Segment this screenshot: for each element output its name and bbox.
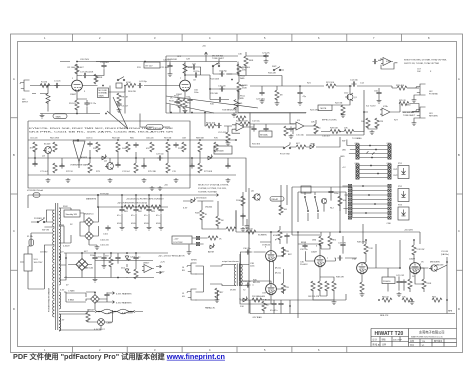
- wire into send jack: [407, 87, 419, 89]
- diode OD D3: [101, 154, 107, 159]
- capacitor C57: [216, 123, 221, 128]
- resistor R2 plate: [75, 64, 79, 74]
- capacitor C1: [54, 83, 59, 88]
- ground mid3: [298, 101, 303, 106]
- svg-text:FOOT SW: FOOT SW: [280, 154, 290, 156]
- wire standby out: [71, 208, 84, 243]
- svg-text:C15 47p: C15 47p: [296, 135, 305, 137]
- ground left io: [241, 227, 246, 232]
- svg-text:Q1: Q1: [354, 97, 358, 99]
- resistor R72 mid drop: [275, 90, 279, 100]
- svg-text:C16 4u7: C16 4u7: [322, 136, 331, 138]
- svg-text:6: 6: [318, 36, 320, 40]
- wire PI riser: [298, 157, 340, 318]
- svg-text:F1 2A: F1 2A: [27, 235, 33, 238]
- resistor R33 180K: [244, 56, 248, 66]
- svg-text:100n: 100n: [250, 266, 255, 268]
- resistor R67: [338, 196, 342, 206]
- resistor OD R46: [116, 142, 120, 152]
- svg-text:115/230: 115/230: [40, 252, 48, 254]
- svg-text:1K: 1K: [205, 214, 208, 216]
- zone numbers top: [44, 36, 430, 40]
- bridge rectifier BR1b: [85, 232, 94, 241]
- svg-text:C34 63V: C34 63V: [338, 243, 347, 245]
- svg-text:47u: 47u: [144, 215, 147, 217]
- svg-text:J5: J5: [182, 293, 185, 295]
- svg-text:R27: R27: [394, 120, 399, 122]
- svg-text:LM317: LM317: [143, 263, 150, 265]
- ground OD g4: [174, 178, 179, 183]
- junction dots psu: [81, 194, 162, 278]
- svg-text:FOOTSW: FOOTSW: [174, 242, 183, 244]
- resistor R70: [94, 74, 98, 84]
- svg-text:R62 470K: R62 470K: [50, 138, 60, 140]
- resistor R90 aux: [208, 236, 218, 240]
- input jack JK1: [20, 80, 30, 91]
- pentode V5 EL84: [266, 284, 277, 296]
- transformer T1 primary winding extra: [53, 264, 55, 317]
- svg-text:1K: 1K: [170, 98, 173, 100]
- svg-text:Standby SW: Standby SW: [66, 213, 77, 216]
- svg-text:Q4: Q4: [104, 161, 108, 163]
- capacitor OD C49: [189, 163, 194, 168]
- capacitor C301: [104, 292, 109, 297]
- svg-text:R15 56K: R15 56K: [210, 93, 219, 95]
- pill box POWER AMP: [146, 125, 163, 130]
- svg-text:1: 1: [44, 348, 46, 352]
- wire CN2-CN4 rows: [359, 166, 388, 178]
- ground return jack: [412, 121, 417, 126]
- svg-text:R34 22K: R34 22K: [268, 73, 277, 75]
- wire rail drop to U2A: [290, 113, 296, 135]
- op-amp U2A mixer: [294, 122, 306, 130]
- svg-text:1K2: 1K2: [30, 148, 35, 150]
- wire cathode ground rail: [40, 107, 100, 114]
- svg-text:HIWATT T20: HIWATT T20: [375, 331, 404, 337]
- ground divider: [117, 108, 122, 113]
- wire plate to tone stack: [185, 74, 210, 76]
- resistor R201: [109, 257, 113, 267]
- wire output tube plates: [240, 232, 271, 304]
- capacitor OD C50: [225, 163, 230, 168]
- svg-text:R515: R515: [169, 101, 175, 103]
- wire OD verticals: [35, 140, 228, 175]
- capacitor C15 mix: [288, 126, 293, 131]
- wire sw run: [31, 217, 52, 222]
- resistor R512: [178, 98, 182, 108]
- svg-text:+12: +12: [342, 167, 346, 169]
- capacitor C58: [187, 97, 192, 102]
- ground mixer: [289, 134, 294, 139]
- svg-text:C66 22n: C66 22n: [146, 138, 154, 140]
- wire r720 link: [202, 211, 236, 229]
- ground preamp: [40, 114, 45, 119]
- ground OD g5: [226, 178, 231, 183]
- svg-text:S2: S2: [70, 224, 73, 226]
- svg-text:47u: 47u: [131, 215, 134, 217]
- svg-text:Q3: Q3: [42, 156, 46, 158]
- transformer T1 core: [56, 203, 58, 330]
- resistor R320: [200, 210, 204, 220]
- box OD IC SE504B: [214, 146, 232, 154]
- svg-text:C10 22n: C10 22n: [218, 86, 226, 88]
- svg-text:+B2 +12V/15V REGULATOR: +B2 +12V/15V REGULATOR: [158, 255, 185, 258]
- svg-text:IC1A: IC1A: [236, 120, 241, 123]
- resistor R60 bias: [252, 298, 262, 302]
- svg-text:TU3TMR, TU3TRK: TU3TMR, TU3TRK: [198, 191, 216, 193]
- wire bias links: [264, 300, 290, 314]
- svg-text:6.3V: 6.3V: [60, 320, 65, 322]
- transformer T1 heater secondary: [59, 292, 61, 309]
- capacitor C21b plate: [191, 64, 196, 69]
- svg-text:C24 470p: C24 470p: [256, 99, 266, 101]
- svg-text:R21 1K6: R21 1K6: [326, 82, 335, 84]
- wire filter cap drops: [122, 207, 161, 226]
- bridge rectifier BR2: [76, 259, 88, 271]
- svg-text:GND: GND: [340, 156, 345, 158]
- resistor R49d cathode: [360, 282, 364, 292]
- LT rail row2: [64, 253, 168, 278]
- jack J4 speaker: [187, 263, 197, 274]
- heater rail row3: [64, 292, 86, 302]
- ground reg row2: [102, 264, 107, 269]
- svg-text:(Hum): (Hum): [275, 268, 281, 270]
- svg-text:6.3V: 6.3V: [60, 290, 65, 292]
- wire od to output link: [236, 158, 246, 192]
- title block small cells text: [373, 337, 443, 347]
- capacitor C32 pi: [302, 243, 307, 248]
- junction dots mid rail: [76, 112, 206, 115]
- diode D10 bias: [242, 296, 248, 301]
- svg-text:2: 2: [420, 264, 422, 266]
- lamp PL1: [98, 319, 105, 326]
- resistor R20 fb: [236, 116, 246, 120]
- resistor R36 tail: [319, 236, 323, 246]
- wire V3A plate: [362, 240, 366, 282]
- svg-text:R64 10K: R64 10K: [112, 138, 121, 140]
- diagonal tone slope line: [166, 96, 258, 108]
- op-amp REG regulator: [142, 265, 154, 273]
- capacitor C21: [167, 63, 172, 68]
- resistor R11 plate V1B: [183, 64, 187, 74]
- title block frame: [371, 329, 457, 347]
- ground mid rail: [232, 113, 237, 118]
- transistor Q6 relay driver: [252, 194, 260, 201]
- svg-text:C204: C204: [130, 257, 136, 259]
- resistor R66: [279, 205, 283, 215]
- svg-text:C: C: [458, 229, 460, 233]
- transformer T1 heater secondary2: [59, 314, 61, 331]
- capacitor C24 mid drop: [259, 90, 264, 95]
- connector CN2 left pins: [356, 164, 359, 179]
- svg-text:SE504B: SE504B: [216, 151, 224, 153]
- node junction box out: [124, 85, 126, 87]
- svg-text:NORMAL: NORMAL: [99, 92, 109, 95]
- svg-text:47K: 47K: [146, 148, 150, 150]
- capacitor C8 coupling to tone: [193, 72, 198, 77]
- svg-text:+B1 320V: +B1 320V: [404, 230, 414, 232]
- svg-text:OVERDRIVE GAIN: OVERDRIVE GAIN: [70, 164, 88, 167]
- wire return path: [364, 104, 419, 130]
- svg-text:BD139: BD139: [437, 265, 444, 267]
- wire HT secondary leads: [59, 208, 71, 243]
- svg-text:C63 1n: C63 1n: [86, 138, 93, 140]
- svg-text:22K: 22K: [93, 148, 97, 150]
- wire lower stubs: [247, 219, 287, 244]
- svg-text:8Ω: 8Ω: [182, 270, 185, 272]
- svg-text:R70: R70: [214, 138, 219, 140]
- wire aux links: [192, 238, 208, 244]
- svg-text:C68: C68: [182, 138, 187, 140]
- svg-text:C HAG: C HAG: [68, 290, 75, 293]
- svg-text:LED: LED: [342, 150, 347, 152]
- resistor RF1: [124, 205, 134, 209]
- svg-text:C27 47u: C27 47u: [262, 53, 270, 55]
- box relay on rail: [144, 62, 160, 68]
- svg-text:6: 6: [318, 348, 320, 352]
- svg-text:R48 2.2K: R48 2.2K: [357, 242, 366, 244]
- pin aux2: [196, 242, 199, 245]
- diagonal tone slope line2: [166, 103, 214, 113]
- svg-text:IC2A: IC2A: [383, 105, 388, 108]
- svg-text:PULL: PULL: [240, 96, 246, 98]
- resistor R47g grid stopper2: [281, 283, 285, 293]
- capacitor C7 bypass: [174, 99, 179, 104]
- svg-text:1: 1: [44, 36, 46, 40]
- svg-text:RV1: RV1: [394, 169, 399, 171]
- svg-text:CN6: CN6: [387, 223, 392, 225]
- svg-text:SW ON: SW ON: [42, 230, 49, 232]
- svg-text:1K: 1K: [219, 239, 222, 241]
- transistor Q7 small: [321, 198, 326, 203]
- svg-text:R516 10K: R516 10K: [206, 123, 216, 125]
- vertical riser rail V1B: [169, 62, 171, 73]
- arrow +B: [213, 194, 219, 197]
- wire pill link: [140, 114, 170, 128]
- node +B supply arrow: [205, 52, 208, 62]
- svg-text:C30: C30: [238, 54, 243, 56]
- wire CN5-CN6 rows: [352, 186, 388, 218]
- resistor R3 cathode: [75, 100, 79, 110]
- ground relay area: [245, 224, 250, 229]
- svg-text:A: A: [458, 77, 460, 81]
- wire mix link: [321, 113, 364, 132]
- capacitor C36b lower: [284, 233, 289, 238]
- ground CF1: [120, 226, 125, 231]
- svg-text:+12V: +12V: [160, 262, 165, 264]
- svg-text:5K3 PRK, C501 6B R5, 10K 2A7R,: 5K3 PRK, C501 6B R5, 10K 2A7R, C505 8B, …: [29, 130, 174, 133]
- wire bass to middle: [226, 89, 239, 100]
- svg-text:J4: J4: [182, 267, 185, 269]
- svg-text:3: 3: [265, 247, 267, 249]
- wire to V1B: [110, 86, 180, 114]
- resistor R28 mix: [330, 129, 340, 133]
- wire feedback vertical: [250, 257, 455, 314]
- vertical bus return: [306, 90, 364, 135]
- wire V1A to box: [82, 86, 125, 93]
- resistor R720: [216, 216, 220, 226]
- resistor OD R53: [198, 142, 202, 152]
- op-amp U1B return: [380, 108, 392, 116]
- triode V1B: [180, 80, 191, 92]
- svg-text:东莞电子有限公司: 东莞电子有限公司: [419, 329, 445, 334]
- tube V5 internals: [268, 285, 274, 293]
- resistor R9 divider: [117, 93, 121, 103]
- jack J2 FX SEND: [416, 84, 426, 95]
- svg-text:6.3V1 HEATERS: 6.3V1 HEATERS: [116, 293, 132, 296]
- node mix junction: [339, 131, 341, 133]
- wire heater run: [183, 201, 218, 216]
- svg-text:6 BAG: 6 BAG: [68, 299, 74, 302]
- svg-text:C76: C76: [172, 171, 177, 173]
- svg-text:10K: 10K: [417, 71, 421, 73]
- svg-text:4: 4: [209, 36, 211, 40]
- resistor R81 nfb: [382, 298, 392, 302]
- svg-text:R25 2K: R25 2K: [399, 100, 406, 102]
- node junction send: [299, 85, 301, 87]
- svg-text:SE100A: SE100A: [260, 134, 268, 137]
- wire pi out run: [334, 258, 357, 261]
- svg-text:名称: 名称: [410, 339, 414, 343]
- switch S4 topmid: [273, 67, 281, 71]
- svg-text:10K: 10K: [344, 128, 348, 130]
- svg-text:7: 7: [327, 258, 329, 260]
- ground mid2: [275, 101, 280, 106]
- resistor R301: [86, 312, 90, 322]
- svg-text:SW1: SW1: [216, 64, 221, 66]
- svg-text:C3 C44: C3 C44: [441, 251, 449, 253]
- switch tone shift: [212, 63, 220, 67]
- svg-text:1M6: 1M6: [312, 240, 317, 242]
- capacitor C34: [340, 242, 345, 247]
- svg-text:A: A: [13, 77, 15, 81]
- svg-text:1N5404: 1N5404: [205, 207, 213, 209]
- zone numbers bottom: [44, 348, 320, 352]
- svg-text:5: 5: [264, 348, 266, 352]
- svg-text:R65: R65: [130, 138, 135, 140]
- bridge rectifier BR1: [85, 218, 94, 227]
- pin aux1: [196, 236, 199, 239]
- svg-text:1N4007x4: 1N4007x4: [84, 214, 94, 216]
- svg-text:g2: g2: [275, 239, 278, 241]
- wire tail tops: [321, 232, 343, 254]
- resistor OD R41: [33, 142, 37, 152]
- switch relay contact1: [305, 196, 308, 212]
- capacitor C2 bypass: [84, 101, 89, 106]
- svg-text:2.2K 2W: 2.2K 2W: [417, 249, 425, 251]
- resistor R1: [40, 83, 50, 87]
- capacitor CF4: [158, 207, 163, 212]
- power switch S3: [37, 219, 45, 223]
- capacitor C20 top: [101, 63, 106, 68]
- resistor R51b plate: [412, 245, 416, 255]
- svg-text:MUTE: MUTE: [321, 108, 327, 110]
- resistor R42b pi tail2: [332, 281, 336, 291]
- vertical drop lines mid: [281, 185, 363, 244]
- svg-text:R67 1M: R67 1M: [164, 138, 171, 140]
- svg-text:B: B: [13, 153, 15, 157]
- svg-text:R8 470K: R8 470K: [128, 91, 137, 93]
- svg-text:470K: 470K: [126, 82, 131, 84]
- resistor R37 tail2: [328, 236, 332, 246]
- svg-text:R83: R83: [151, 211, 156, 213]
- svg-text:V3A: V3A: [352, 258, 357, 261]
- svg-text:R69 56K: R69 56K: [196, 138, 205, 140]
- svg-text:C102 22n: C102 22n: [100, 240, 109, 242]
- wire x238 riser: [237, 90, 239, 113]
- diagonal pot wiper long: [107, 97, 128, 129]
- capacitor C50fx: [376, 90, 381, 95]
- capacitor C41: [396, 279, 401, 284]
- capacitor C101: [105, 225, 110, 230]
- connector CN5 left pins: [348, 184, 351, 219]
- transformer T1 LT secondary: [59, 254, 61, 271]
- capacitor OD C46: [141, 163, 146, 168]
- potentiometer VR2 treble: [237, 64, 244, 74]
- svg-text:12AX7: 12AX7: [311, 251, 318, 254]
- wire r516 link: [205, 113, 232, 133]
- wire OT secondary leads: [210, 265, 236, 286]
- svg-text:C4 120p: C4 120p: [139, 81, 148, 83]
- svg-text:C38: C38: [250, 263, 255, 265]
- ground CF3: [147, 226, 152, 231]
- box relay small: [301, 186, 311, 193]
- resistor OD R42: [53, 142, 57, 152]
- wire mute drop: [332, 86, 350, 105]
- svg-text:22K BIAS ADJ: 22K BIAS ADJ: [252, 295, 265, 298]
- capacitor C201: [92, 255, 97, 260]
- capacitor OD C45: [133, 142, 138, 147]
- svg-text:1: 1: [72, 78, 74, 80]
- svg-text:TO PANEL: TO PANEL: [352, 137, 363, 140]
- transformer T1 secondary extra: [59, 243, 61, 331]
- svg-text:RY1: RY1: [398, 163, 403, 165]
- wire speaker links: [196, 266, 218, 300]
- svg-text:SELECT DY DY3DT3A, DY3TRK,: SELECT DY DY3DT3A, DY3TRK,: [198, 184, 229, 187]
- svg-text:SO1: SO1: [34, 259, 39, 261]
- svg-text:C5 4n7: C5 4n7: [122, 106, 129, 108]
- svg-text:100n: 100n: [334, 193, 339, 195]
- svg-text:POWER TRANSFORMER: POWER TRANSFORMER: [48, 287, 51, 312]
- svg-text:R77 6K8: R77 6K8: [204, 171, 213, 173]
- svg-text:output transformer: output transformer: [222, 260, 239, 263]
- overdrive top rail: [28, 139, 236, 141]
- svg-text:R320: R320: [195, 213, 201, 215]
- resistor OD R54: [198, 163, 202, 173]
- svg-text:D8 1N5404: D8 1N5404: [196, 198, 207, 200]
- capacitor OD C41: [32, 161, 37, 166]
- wire send jack link: [392, 86, 397, 88]
- svg-text:R31 3K3: R31 3K3: [252, 144, 261, 146]
- svg-text:6.3V TWIST: 6.3V TWIST: [122, 313, 134, 315]
- capacitor C11 mid: [217, 97, 222, 102]
- wire send jack gnd: [414, 95, 420, 98]
- svg-text:RAD: RAD: [240, 77, 245, 80]
- svg-text:MASKETM: MASKETM: [86, 198, 96, 201]
- wire heater links: [95, 292, 109, 302]
- transistor Q5: [429, 265, 437, 272]
- wire mid drops: [262, 86, 277, 101]
- svg-text:220K: 220K: [98, 77, 103, 79]
- box around U1A: [378, 58, 397, 69]
- svg-text:6.3V: 6.3V: [183, 208, 188, 210]
- capacitor C5 divider: [116, 102, 121, 107]
- capacitor C204: [133, 255, 138, 260]
- box MV NORMAL GAIN: [98, 88, 109, 98]
- svg-text:5K:8R: 5K:8R: [230, 290, 236, 292]
- small box bright cap: [116, 83, 122, 88]
- svg-text:R14 100K: R14 100K: [210, 79, 220, 81]
